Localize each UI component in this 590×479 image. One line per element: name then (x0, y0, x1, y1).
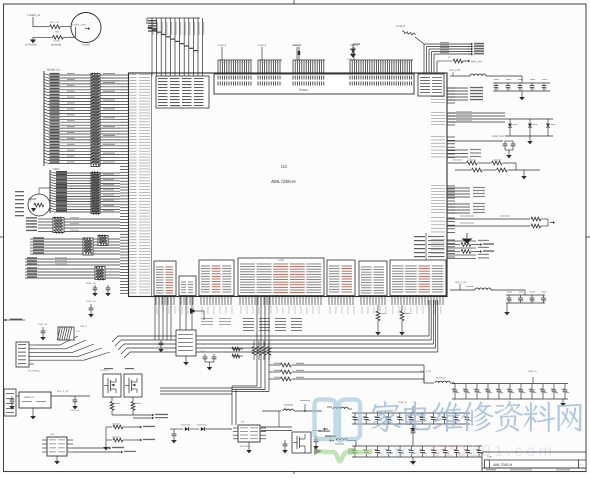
block VBYONE (199, 260, 234, 296)
resistor network hatched (57, 327, 80, 340)
wire rows MEM bus (44, 73, 120, 164)
transistor Q1 pass-fet (100, 368, 134, 397)
svg-text:SDGFR: SDGFR (53, 40, 61, 43)
wire rows audio group3 (25, 257, 120, 265)
wire staircase debug (34, 336, 110, 360)
capacitor bank VAA (504, 290, 546, 315)
pin combs above power connector (218, 44, 413, 74)
inductor L_ldo (449, 69, 522, 76)
svg-text:TUNER: TUNER (82, 44, 91, 47)
net stub top-center (292, 44, 301, 60)
svg-text:WRT_ANT: WRT_ANT (471, 61, 483, 64)
power flag row C (325, 436, 356, 447)
wire verticals to crystal (180, 297, 192, 331)
svg-text:C048_R: C048_R (396, 25, 405, 28)
AV input connector circle (28, 188, 50, 216)
svg-text:C048_1u: C048_1u (100, 369, 109, 372)
inductor L_row_A (420, 370, 538, 383)
svg-text:C048_R: C048_R (258, 44, 267, 47)
IC U3 AML7266-H outline (129, 73, 448, 297)
wire rows group R2 (447, 149, 481, 157)
svg-text:AML7266-H: AML7266-H (493, 463, 513, 467)
ground antenna (30, 37, 36, 43)
resistor pack RP4 (83, 238, 93, 255)
tuner input connector circle (27, 13, 101, 43)
svg-text:AML7266-H: AML7266-H (271, 179, 296, 184)
IC U3 right pin rows (431, 87, 455, 257)
wire fan top-right (424, 42, 484, 73)
capacitor bank row B (318, 406, 471, 432)
wire rows dac outs (447, 87, 483, 100)
regulator U_reg AMS1117 (16, 390, 90, 419)
resistor pack RP6 (95, 267, 105, 280)
svg-text:LVDS: LVDS (278, 259, 284, 262)
resistor R_pc1 (106, 424, 155, 429)
svg-text:AMP_4: AMP_4 (80, 325, 88, 328)
resistor R_pc2 (106, 437, 155, 442)
wire verticals center-left under IC (155, 297, 171, 341)
svg-text:C048_R: C048_R (292, 44, 301, 47)
svg-text:ANT_47R: ANT_47R (50, 21, 60, 24)
capacitor C_reg_in (9, 396, 15, 409)
capacitor C_reg_out (70, 396, 80, 412)
inner block top-right of U3 (418, 74, 444, 96)
resistor R_term1 (375, 305, 386, 335)
resistor R_term2 (399, 305, 410, 335)
inner partition bottom-right of U3 (414, 233, 447, 261)
svg-text:Title: Title (487, 456, 492, 459)
watermark logo book (315, 400, 361, 443)
wire rows audio group4 (25, 267, 120, 278)
block OSD (327, 260, 355, 296)
resistor row pair 2 (455, 163, 540, 179)
title block (482, 452, 586, 472)
wire rows VCLAMP (447, 111, 505, 122)
transistor Q2 pass-fet (124, 374, 142, 397)
svg-text:AVDD_DAC: AVDD_DAC (492, 135, 505, 138)
svg-text:C048_1uF: C048_1uF (86, 300, 96, 303)
capacitor C_mid (406, 423, 415, 446)
svg-text:VDD_1_5V: VDD_1_5V (420, 370, 431, 373)
svg-text:ATM24C08: ATM24C08 (170, 105, 182, 108)
power flag bold right (462, 233, 473, 244)
svg-text:MX25L512: MX25L512 (240, 445, 251, 448)
wire verticals LVDS drop (232, 297, 269, 426)
svg-text:VCC_LDO: VCC_LDO (449, 69, 460, 72)
resistor R_ant_out (437, 56, 483, 73)
signal flags q outputs (112, 414, 168, 420)
resistors R_i2c (447, 216, 555, 228)
capacitor C_x1 (158, 340, 164, 352)
wire rows uart (447, 240, 494, 259)
diode D_pwr with ground (347, 44, 360, 61)
resistor pack RP5 (98, 235, 108, 245)
svg-text:SDIO: SDIO (53, 168, 59, 171)
resistor R_q2 (131, 397, 141, 415)
capacitor C_dbg (38, 323, 48, 340)
label stack video inputs (15, 191, 24, 216)
resistor trio VDD rails (269, 363, 424, 383)
resistor cluster under LVDS (232, 341, 271, 360)
resistor pack RP1 (91, 73, 100, 166)
svg-text:U3: U3 (281, 164, 287, 169)
wire rows to flash (160, 388, 232, 394)
transistor Q3 box (292, 432, 311, 453)
inductor L_row_B (327, 401, 408, 409)
capacitor bank row A (452, 377, 570, 406)
wire rows group R3 (447, 187, 485, 213)
wire bus debug staircase (80, 300, 438, 358)
svg-text:C048_1u: C048_1u (398, 401, 408, 404)
resistor pack RP3 (53, 217, 64, 233)
capacitor bank LDO (493, 76, 550, 100)
svg-text:VDD_3_3V: VDD_3_3V (57, 390, 68, 393)
IC U3 bottom pin combs (156, 297, 443, 315)
block TCON (179, 276, 196, 296)
block DDR_PHY (154, 261, 176, 296)
label grid below VBYONE (201, 318, 231, 325)
svg-text:For Debug: For Debug (28, 370, 40, 373)
svg-text:C048_R: C048_R (350, 44, 359, 47)
capacitors around Q3 (282, 430, 321, 453)
resistor row pair 1 (448, 160, 516, 165)
wire rows audio group1 (26, 217, 120, 231)
capacitor bank row C (352, 446, 484, 465)
resistor pack RP2 (91, 172, 100, 215)
resistor R_ant1 (50, 21, 72, 29)
bus SDIO (50, 168, 59, 213)
diode bank D_clamp (505, 119, 556, 144)
svg-text:C048_1u: C048_1u (528, 370, 538, 373)
svg-text:AGND: AGND (347, 58, 353, 61)
svg-text:ANTENNA: ANTENNA (25, 44, 37, 47)
label grid below LVDS (243, 318, 302, 331)
resistor R_q1 (110, 397, 120, 415)
IC U3 left pin row (120, 74, 150, 293)
wire bundle to EEPROM (147, 18, 204, 60)
diodes D1 D2 (170, 425, 232, 444)
svg-text:22pF: 22pF (200, 350, 205, 353)
IC U_eep2 bottom-left (42, 433, 136, 464)
svg-text:4.7K: 4.7K (76, 330, 81, 333)
ground q legs (103, 427, 109, 450)
connector J_pwr_in (4, 389, 16, 416)
transistor symbol under IC (190, 308, 204, 320)
capacitors C_avdd_dac (447, 135, 515, 158)
wire rows audio group2 (30, 237, 120, 254)
connector J_power (214, 74, 414, 94)
svg-text:TUNER_IN: TUNER_IN (27, 14, 40, 17)
bus MEM(0:31) (44, 69, 60, 167)
block AUDIO_OUT (359, 261, 387, 296)
svg-text:AMS1117: AMS1117 (24, 396, 35, 399)
svg-text:www.520101.com: www.520101.com (378, 443, 556, 460)
block SYS_CTL (390, 260, 446, 296)
resistor R_ant2 (33, 31, 76, 43)
IC U_flash MX25L (233, 421, 266, 454)
wires flash to Q3 (261, 427, 292, 431)
wire rows SDIO bus (50, 171, 120, 212)
svg-text:C048_1uF: C048_1uF (38, 323, 48, 326)
tuner labels (25, 44, 91, 47)
inductor L_flash (262, 400, 322, 427)
svg-text:TUNER_COAX: TUNER_COAX (72, 24, 87, 27)
EEPROM block U_ee (152, 60, 209, 108)
inductor L_vaa (450, 281, 525, 290)
svg-text:C048_R: C048_R (218, 44, 227, 47)
svg-text:C048_1uF: C048_1uF (70, 409, 80, 412)
IC U3 reference label (271, 164, 296, 184)
svg-text:ANT5VIN: ANT5VIN (51, 44, 61, 47)
capacitor C_audio (86, 282, 111, 296)
resistor R_tr diagonal (396, 25, 424, 44)
power flag VCC left (4, 319, 25, 322)
watermark text cn (371, 401, 581, 432)
watermark url (378, 443, 556, 460)
svg-text:Power: Power (299, 88, 309, 92)
svg-text:VAA_1_5V: VAA_1_5V (455, 281, 467, 284)
capacitor C_3v3 (86, 300, 96, 317)
capacitors C_22p (200, 350, 216, 370)
connector J_debug (16, 342, 40, 373)
block LVDS (238, 258, 324, 296)
crystal circuit X1 (176, 330, 196, 365)
watermark green stroke (314, 448, 373, 462)
svg-text:MEM[0:31]: MEM[0:31] (47, 69, 60, 72)
svg-text:C048_1uF: C048_1uF (86, 282, 97, 285)
